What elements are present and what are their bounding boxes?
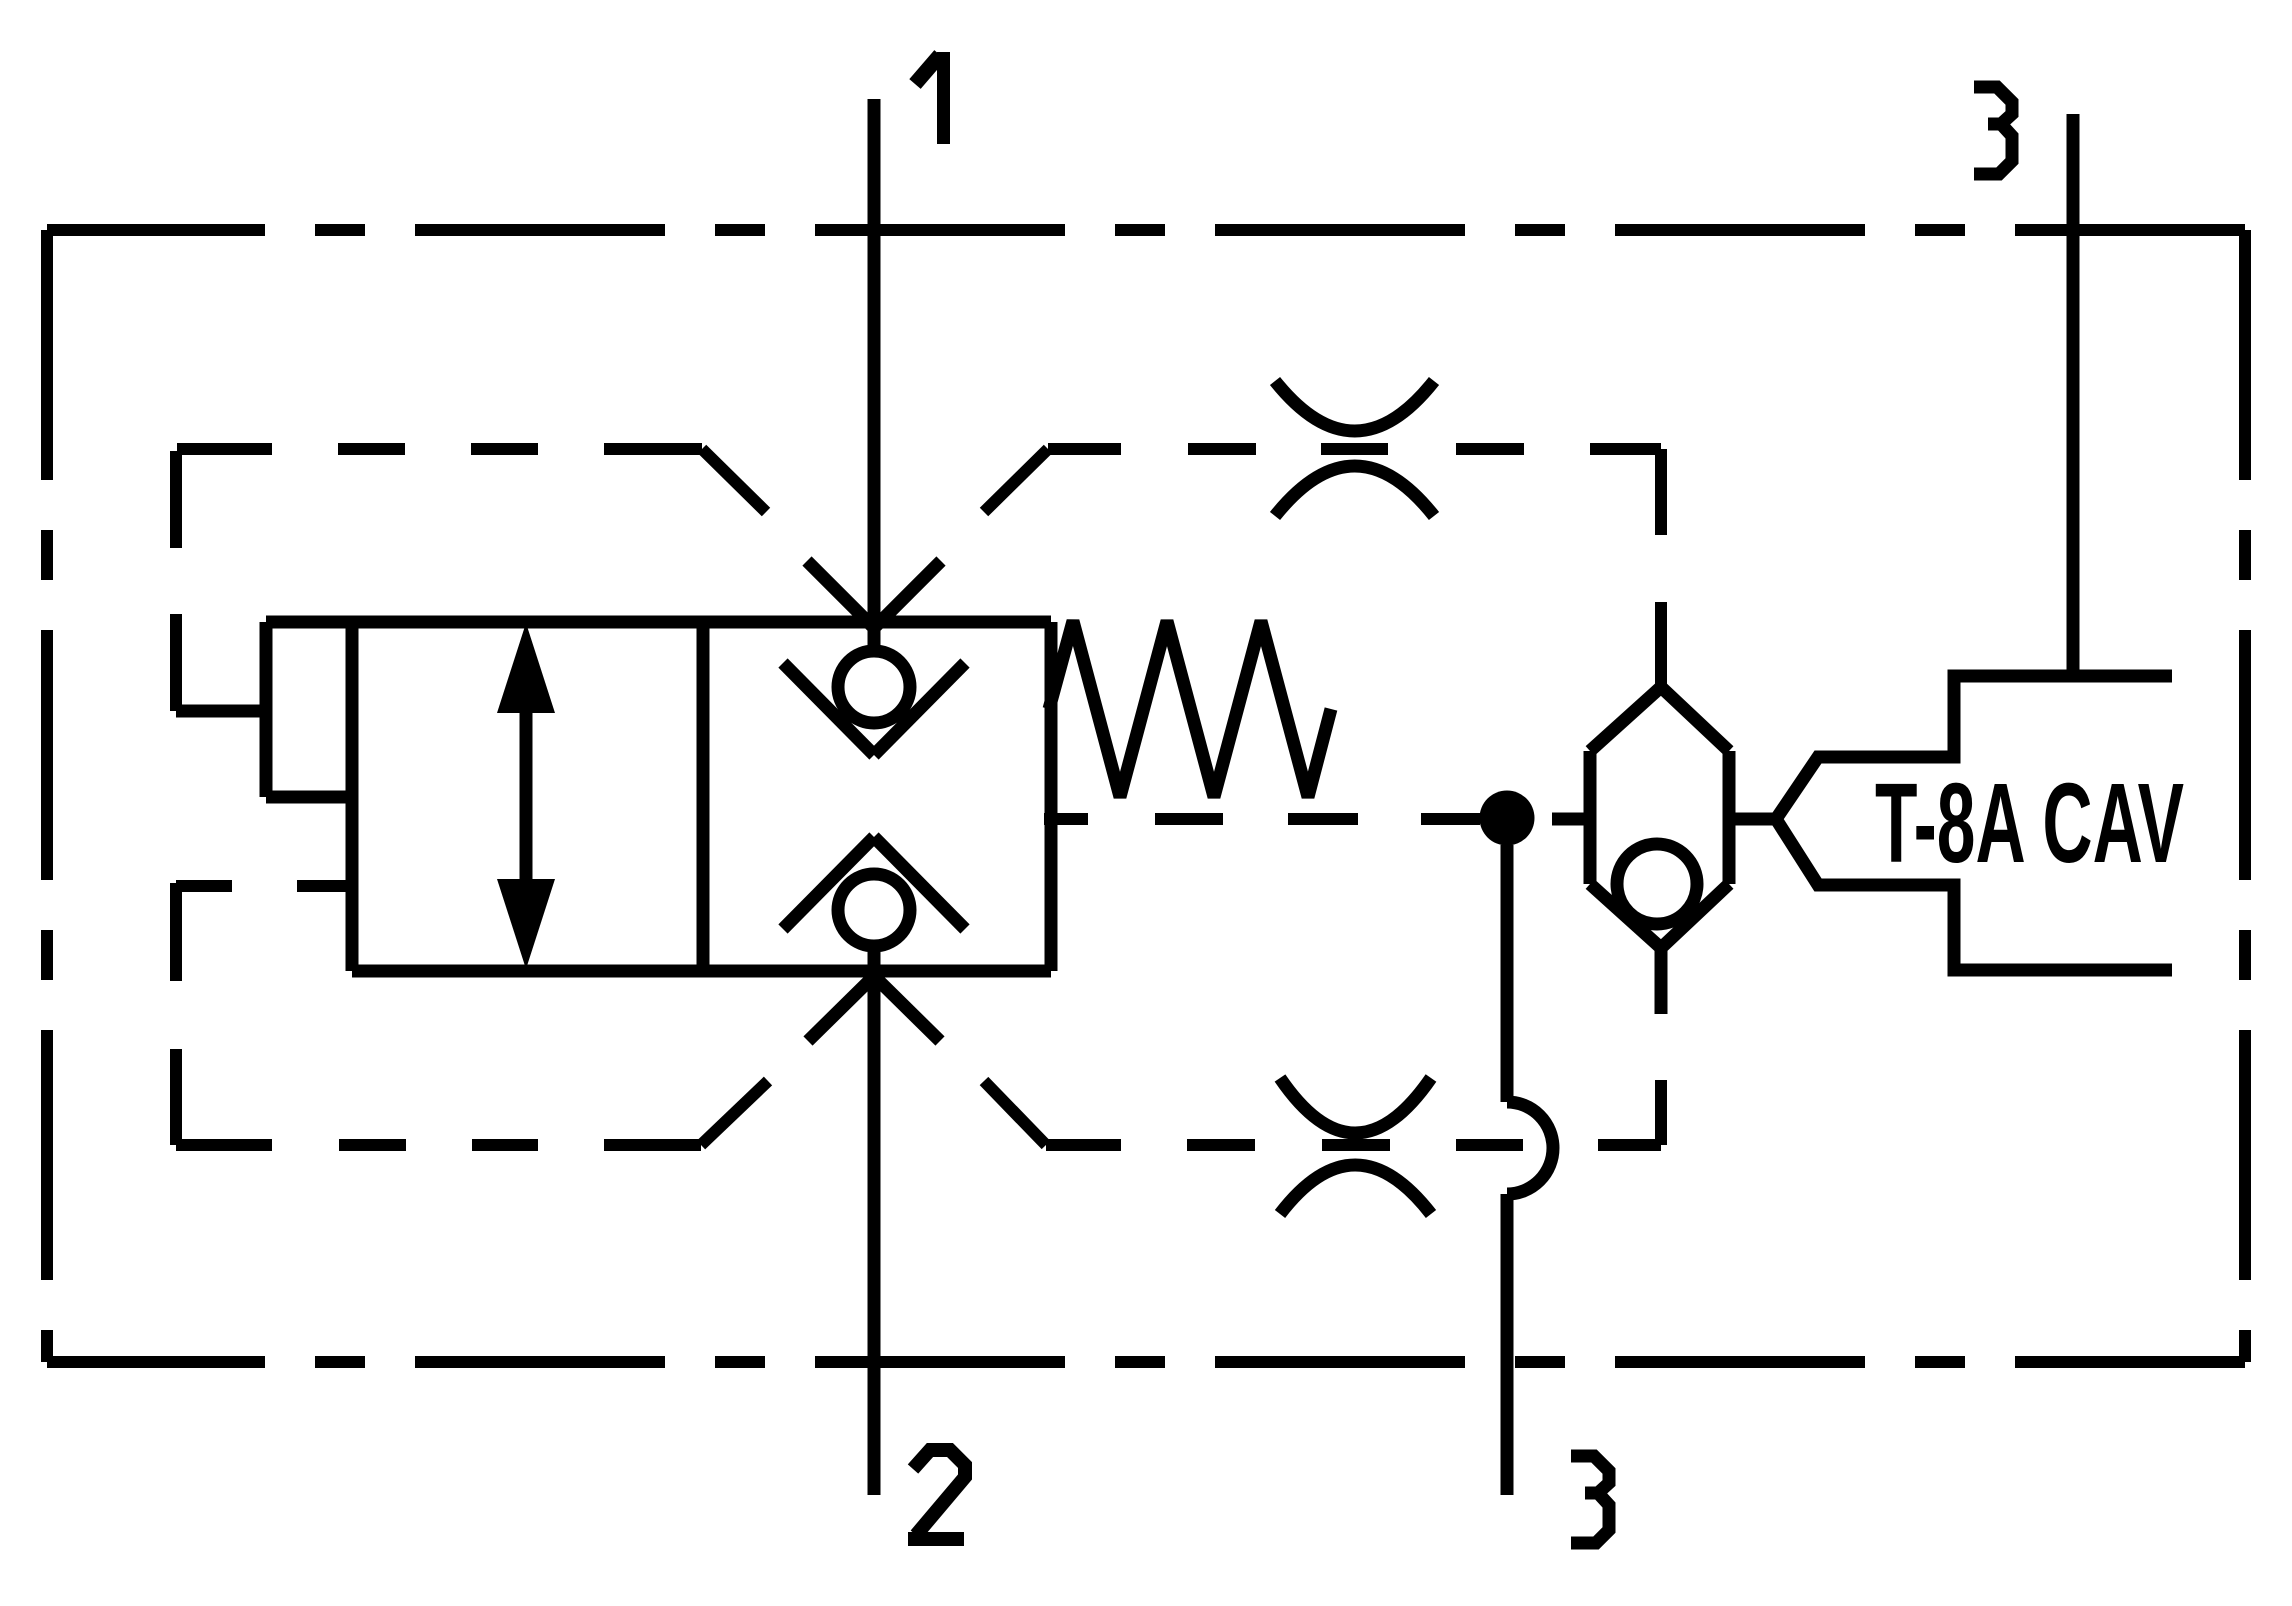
- wire shuttle check to cavity: [1729, 813, 1776, 826]
- check poppet lower (seat and ball): [783, 837, 965, 946]
- wire node to shuttle check: [1552, 813, 1590, 826]
- port 2 arrowhead: [808, 976, 940, 1041]
- break mark bottom-right chevron: [984, 1081, 1046, 1145]
- port 3 top line: [2067, 114, 2080, 676]
- pilot dashed line to node: [1044, 813, 1480, 825]
- shuttle check valve body: [1590, 687, 1729, 1014]
- break mark top-right chevron: [984, 449, 1048, 512]
- cavity outline: [1776, 676, 2172, 970]
- orifice bottom (restriction): [1280, 1078, 1431, 1214]
- orifice top (restriction): [1275, 381, 1434, 516]
- spring: [1049, 621, 1331, 797]
- label 3 top: [1974, 87, 2012, 174]
- port 1 arrowhead: [807, 561, 941, 628]
- shuttle check ball: [1617, 844, 1697, 924]
- port 2 line: [868, 952, 881, 1495]
- double arrow (valve stroke): [497, 623, 555, 969]
- label 3 bottom: [1571, 1456, 1609, 1543]
- outer manifold boundary (chain line): [47, 230, 2245, 1362]
- port 1 line: [868, 99, 881, 646]
- node junction dot: [1480, 791, 1535, 846]
- valve body boxes: [266, 622, 1051, 971]
- label 1: [915, 52, 944, 144]
- inner pilot boundary bottom edge (dashed): [176, 1139, 1661, 1151]
- inner pilot boundary left edge (dashed): [170, 451, 182, 1145]
- break mark bottom-left chevron: [701, 1081, 768, 1145]
- pilot line lower (dashed): [176, 880, 351, 892]
- pilot line upper: [176, 705, 266, 718]
- check poppet upper (seat and ball): [783, 651, 965, 755]
- break mark top-left chevron: [702, 449, 766, 512]
- pilot actuator box: [266, 622, 352, 797]
- port 3 lower line with hop: [1507, 845, 1553, 1495]
- inner pilot boundary top edge (dashed): [177, 443, 1661, 455]
- label 2: [908, 1450, 965, 1539]
- inner pilot boundary right edge (dashed): [1655, 449, 1667, 1145]
- svg-text:T-8A CAV: T-8A CAV: [1875, 760, 2184, 886]
